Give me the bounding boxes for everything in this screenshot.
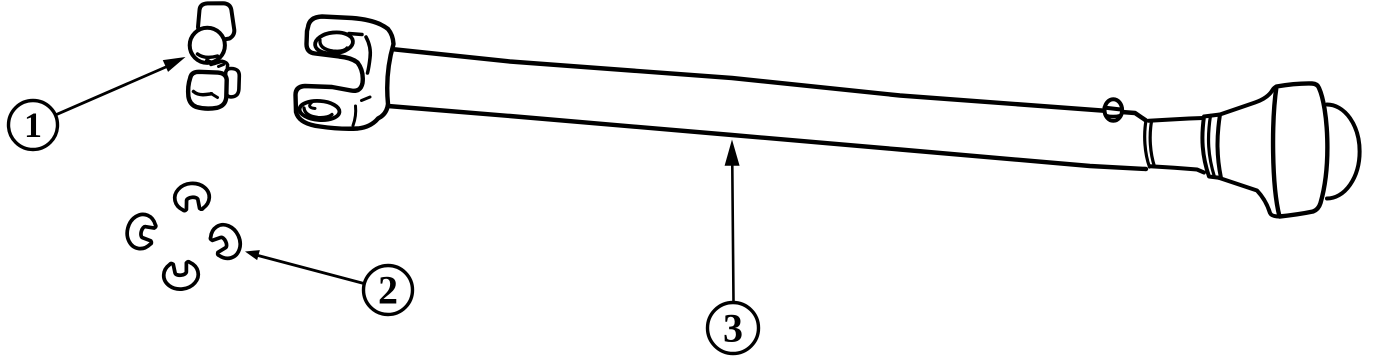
svg-text:2: 2: [378, 268, 398, 313]
svg-text:3: 3: [723, 306, 743, 351]
svg-text:1: 1: [24, 105, 42, 145]
